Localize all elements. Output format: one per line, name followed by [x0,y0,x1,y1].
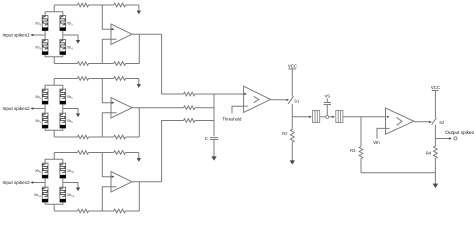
svg-text:R3: R3 [350,148,356,153]
input terminal: Input spikes1 [3,33,46,38]
wire row3 summing to node [195,120,214,122]
resistor R3 [359,147,363,159]
svg-text:Vth: Vth [373,140,380,145]
ground (row3 top) [138,153,140,159]
wire S1 to C1 [292,116,310,118]
wire row2 feedback [138,108,140,137]
wire bridge3 bottom [45,202,63,204]
wire S1 node [291,104,293,129]
op-amp A2 [111,98,132,119]
svg-text:Output spikes1: Output spikes1 [445,130,474,135]
comparator U2 [386,108,414,134]
svg-text:Input spikes3: Input spikes3 [3,180,31,185]
svg-text:R2: R2 [282,131,288,136]
terminal Output spikes [435,130,474,140]
resistor (row1 summing) [184,92,196,96]
svg-text:S2: S2 [439,120,445,125]
power VCC (S1) [288,64,297,69]
wire row1 inverting input [102,39,116,63]
wire row2 summing to node [195,107,214,109]
ground (row1 top) [138,5,140,11]
wire row1 bottom [54,63,77,65]
resistor (row3 non-inverting input) [78,151,89,155]
memristor Xb12 [60,187,75,202]
ground (row2 top) [138,79,140,85]
svg-text:VCC: VCC [431,85,440,90]
wire node to C2 [329,116,333,118]
svg-text:C: C [205,136,208,141]
memristor Xb6 [60,89,73,104]
resistor (row2 summing) [184,106,196,110]
capacitor C [205,136,218,141]
wire bridge3 right column [62,178,64,187]
op-amp A1 [111,24,132,45]
resistor (row1 inverting input) [78,62,89,66]
svg-text:Xb6: Xb6 [67,95,73,100]
svg-text:Xb2: Xb2 [67,22,73,27]
memristor Xb11 [34,187,48,202]
resistor (row2 inverting input) [78,135,89,139]
capacitor C1 (series) [313,110,320,122]
wire VCC to S2 [434,91,436,118]
resistor R2 [291,129,295,142]
wire A2 output [132,107,184,109]
wire A1 output [132,33,162,35]
wire row3 inverting input [102,187,116,211]
comparator U1 [244,86,271,112]
wire C1 to node [320,116,326,118]
wire bridge1 right node [63,35,78,40]
svg-text:VS: VS [325,93,331,98]
resistor R4 [434,146,438,159]
memristor Xb5 [35,89,48,104]
svg-text:Xb4: Xb4 [67,46,73,51]
wire row1 feedback [138,34,140,63]
wire A1 output to summing [162,34,184,94]
capacitor C2 (series) [336,110,343,122]
resistor (row3 feedback) [114,209,126,213]
svg-text:Xb9: Xb9 [35,169,41,174]
wire node to comparator [214,93,244,95]
wire bridge3 top [45,159,63,163]
memristor Xb9 [35,163,48,178]
ground (R3/R4) [434,173,436,184]
wire bridge1 bottom [45,55,63,57]
wire row3 bottom [54,210,77,212]
wire row2 non-inverting input [102,79,111,103]
ground (C) [213,140,215,158]
svg-text:Xb8: Xb8 [67,119,73,124]
wire bridge3 right node [63,183,78,188]
wire row1 summing to node [195,93,214,95]
memristor Xb7 [35,113,48,128]
wire R4 bottom [434,159,436,173]
resistor (row1 feedback) [114,62,126,66]
ground (R2) [291,142,293,161]
memristor Xb4 [60,40,73,55]
wire bridge1 right column [62,31,64,40]
memristor Xb10 [60,163,75,178]
resistor (row3 inverting input) [78,209,89,213]
wire bridge1 left column [44,31,46,40]
wire bridge2 bottom [45,128,63,130]
node summing (vertical bus) [213,94,215,136]
input terminal: Input spikes2 [3,106,46,111]
wire row2 bottom [54,136,77,138]
wire row3 feedback [138,182,140,211]
wire bridge3 left column [44,178,46,187]
wire row3 non-inverting input [102,153,111,177]
svg-text:Xb1: Xb1 [35,22,41,27]
wire row1 top [54,4,77,6]
ground (bridge1 right node) [77,40,79,41]
wire node R3 [360,117,362,147]
wire C2 to comparator U2 [343,116,386,118]
ground (bridge3 right node) [77,187,79,188]
node Threshold [222,106,243,121]
resistor (row2 to ground) [114,77,126,81]
resistor (row2 feedback) [114,135,126,139]
node Vth [373,128,385,145]
wire row1 non-inverting input [102,5,111,29]
memristor Xb8 [60,113,73,128]
svg-text:Xb3: Xb3 [35,46,41,51]
wire bridge2 right column [62,104,64,113]
ground (bridge2 right node) [77,113,79,114]
wire row2 top [54,78,77,80]
power VCC (S2) [431,85,440,90]
svg-text:R4: R4 [426,151,432,156]
wire bridge2 right node [63,109,78,114]
svg-text:Xb5: Xb5 [35,95,41,100]
resistor (row2 non-inverting input) [78,77,89,81]
node (between C1 and C2) [326,116,329,119]
wire row2 inverting input [102,113,116,137]
svg-text:S1: S1 [294,98,300,103]
svg-text:Xb10: Xb10 [67,169,75,174]
wire bridge1 top [45,12,63,16]
switch S2 [432,118,445,125]
op-amp A3 [111,172,132,193]
svg-text:Xb11: Xb11 [34,193,42,198]
svg-text:Xb12: Xb12 [67,193,75,198]
svg-text:Xb7: Xb7 [35,119,41,124]
memristor Xb2 [60,16,73,31]
resistor (row1 to ground) [114,3,126,7]
wire row3 top [54,152,77,154]
svg-text:VCC: VCC [288,64,297,69]
wire U2 output [414,121,430,123]
wire A3 output to summing [162,121,184,182]
source VS (coupling) [324,93,331,115]
wire S2 node [434,125,436,146]
wire bridge2 left column [44,104,46,113]
resistor (row3 summing) [184,119,196,123]
wire VCC to S1 [291,69,293,96]
wire R3 bottom [360,159,362,173]
wire U1 output [271,99,287,101]
svg-text:Threshold: Threshold [222,117,242,122]
svg-text:Input spikes2: Input spikes2 [3,106,31,111]
memristor Xb1 [35,16,48,31]
svg-text:Input spikes1: Input spikes1 [3,33,31,38]
resistor (row1 non-inverting input) [78,3,89,7]
resistor (row3 to ground) [114,151,126,155]
wire A3 output [132,181,162,183]
wire bridge2 top [45,85,63,89]
switch S1 [288,96,300,104]
input terminal: Input spikes3 [3,180,46,185]
memristor Xb3 [35,40,48,55]
